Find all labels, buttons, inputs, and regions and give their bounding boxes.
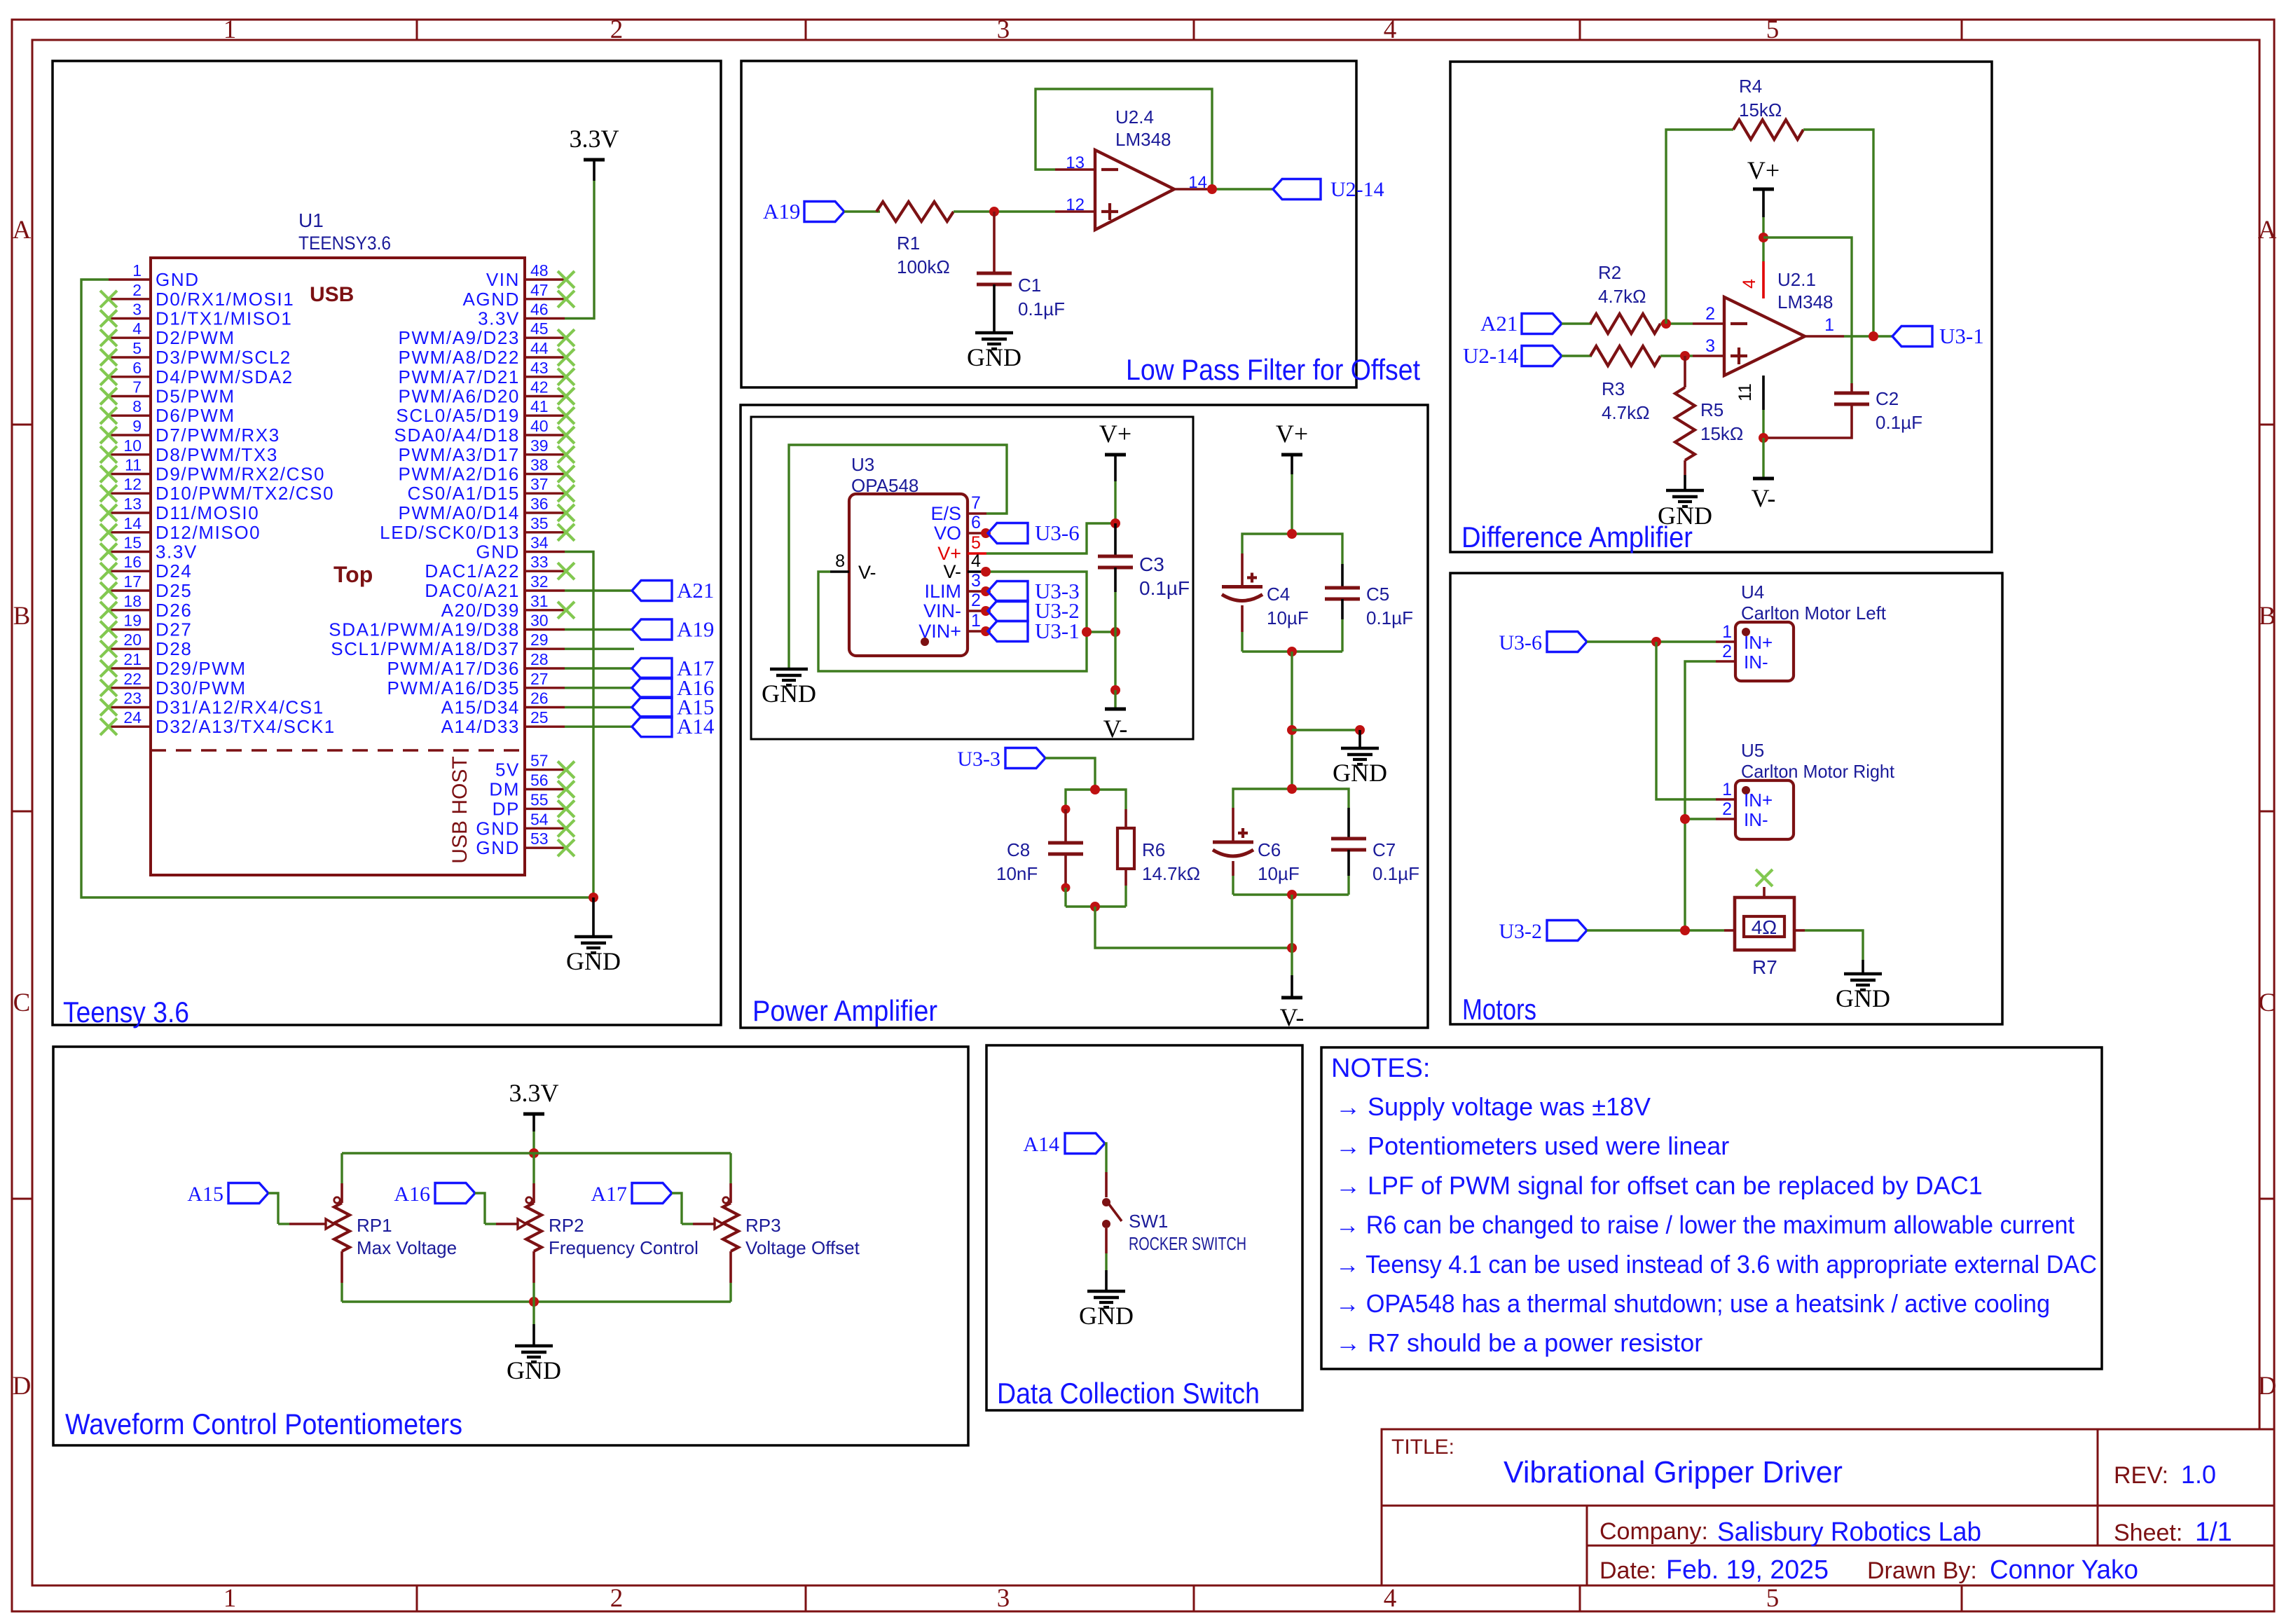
teensy pin 11 D9/PWM/RX2/CS0 (109, 473, 151, 475)
svg-text:RP2: RP2 (549, 1215, 584, 1236)
wire teensy pin1 GND loop (81, 280, 593, 897)
svg-text:LM348: LM348 (1777, 291, 1834, 312)
wire + net flag A15 (teensy pin 26) (565, 706, 632, 708)
svg-text:1: 1 (223, 1584, 237, 1613)
svg-text:D8/PWM/TX3: D8/PWM/TX3 (156, 444, 278, 465)
svg-text:GND: GND (1836, 984, 1890, 1012)
pin 12 (1055, 210, 1095, 212)
svg-text:DM: DM (489, 779, 520, 800)
svg-text:V+: V+ (1276, 420, 1308, 448)
wire teensy pin34 GND (565, 552, 593, 898)
svg-text:1: 1 (223, 15, 237, 44)
svg-text:41: 41 (530, 397, 549, 415)
teensy pin 16 D24 (109, 570, 151, 572)
svg-text:38: 38 (530, 456, 549, 474)
svg-text:19: 19 (123, 612, 142, 630)
svg-text:Carlton Motor Left: Carlton Motor Left (1741, 603, 1887, 624)
svg-text:→ R7 should be a power resist: → R7 should be a power resistor (1335, 1328, 1702, 1357)
svg-text:PWM/A3/D17: PWM/A3/D17 (399, 444, 521, 465)
wire U3-6 to U4 (1587, 640, 1716, 642)
teensy pin 28 PWM/A17/D36 (525, 667, 565, 669)
wire + net flag A14 (teensy pin 25) (565, 725, 632, 727)
wire A19 to R1 (844, 210, 880, 212)
svg-text:V-: V- (858, 562, 876, 583)
svg-text:25: 25 (530, 708, 549, 727)
svg-text:5: 5 (971, 533, 981, 553)
resistor R2 4.7k (1590, 314, 1660, 333)
svg-text:29: 29 (530, 631, 549, 649)
svg-text:3: 3 (997, 15, 1010, 44)
teensy pin 8 D6/PWM (109, 415, 151, 417)
svg-text:V+: V+ (1747, 156, 1780, 184)
svg-text:U2-14: U2-14 (1463, 343, 1519, 368)
teensy pin 7 D5/PWM (109, 395, 151, 397)
svg-text:5: 5 (1766, 15, 1780, 44)
NOTES box (1321, 1047, 2102, 1369)
svg-text:3: 3 (1705, 336, 1715, 356)
teensy pin 56 DM (525, 788, 565, 790)
wire C6/C7 bottom rail (1233, 893, 1349, 895)
svg-text:V-: V- (1752, 484, 1776, 512)
svg-text:11: 11 (125, 456, 142, 474)
svg-text:PWM/A9/D23: PWM/A9/D23 (399, 327, 521, 348)
svg-text:28: 28 (530, 650, 549, 668)
capacitor C6 10uF polarized (1232, 808, 1234, 841)
wire mid rail down (1291, 652, 1293, 789)
svg-text:A17: A17 (591, 1183, 627, 1206)
svg-text:U1: U1 (298, 209, 324, 231)
svg-text:GND: GND (476, 837, 520, 858)
svg-text:24: 24 (123, 708, 142, 727)
svg-text:→ Teensy 4.1 can be used inst: → Teensy 4.1 can be used instead of 3.6 … (1335, 1250, 2097, 1279)
svg-text:A20/D39: A20/D39 (441, 600, 520, 621)
svg-text:VIN: VIN (486, 269, 520, 290)
svg-text:GND: GND (1079, 1302, 1134, 1330)
svg-text:SDA1/PWM/A19/D38: SDA1/PWM/A19/D38 (329, 619, 520, 640)
ground power amp left (770, 668, 808, 671)
wire A21 to R2 (1562, 322, 1592, 324)
wire C4/C5 bottom rail (1242, 650, 1342, 652)
svg-text:→ Supply voltage was ±18V: → Supply voltage was ±18V (1335, 1092, 1651, 1121)
svg-text:U4: U4 (1741, 582, 1764, 603)
svg-text:D10/PWM/TX2/CS0: D10/PWM/TX2/CS0 (156, 483, 334, 504)
svg-text:Voltage Offset: Voltage Offset (745, 1237, 860, 1258)
U3 OPA548 body (849, 494, 968, 656)
svg-text:2: 2 (1722, 642, 1732, 661)
Waveform Control Potentiometers section box (53, 1047, 968, 1445)
svg-text:10µF: 10µF (1258, 863, 1300, 884)
wire U3-3 to C8/R6 (1045, 758, 1095, 790)
junction node R1/C1 (989, 207, 999, 216)
U3 pin 6 VO (968, 532, 986, 534)
svg-text:5: 5 (132, 339, 142, 357)
net flag U3-1 output (1892, 326, 1932, 347)
svg-text:14.7kΩ: 14.7kΩ (1142, 863, 1200, 884)
wire U3 pin5 V+ (986, 523, 1115, 553)
svg-text:Max Voltage: Max Voltage (357, 1237, 457, 1258)
svg-text:D29/PWM: D29/PWM (156, 658, 247, 679)
wire C8/R6 bottom rail (1066, 905, 1126, 907)
teensy pin 41 SCL0/A5/D19 (525, 415, 565, 417)
capacitor C1 0.1uF (993, 212, 996, 273)
U5 pin 2 IN- (1716, 818, 1735, 820)
svg-text:9: 9 (132, 417, 142, 435)
Low Pass Filter section box (741, 61, 1356, 387)
wire R2 to op-amp (1660, 322, 1693, 324)
ground switch (1105, 1270, 1108, 1291)
svg-text:R2: R2 (1598, 262, 1621, 283)
feedback loop R4 (1666, 130, 1733, 324)
svg-text:GND: GND (1658, 502, 1712, 530)
svg-text:1: 1 (132, 261, 142, 280)
svg-text:31: 31 (530, 592, 549, 610)
U3 pin 4 V- (968, 570, 986, 572)
OPA548 sub box (751, 417, 1193, 739)
potentiometer RP2 Frequency Control (532, 1153, 535, 1183)
teensy pin 35 LED/SCK0/D13 (525, 531, 565, 533)
pin 4 V+ (1762, 261, 1765, 298)
svg-text:100kΩ: 100kΩ (897, 256, 950, 277)
switch SW1 rocker (1105, 1172, 1108, 1197)
svg-text:GND: GND (476, 818, 520, 839)
wire A16 to wiper (475, 1193, 485, 1224)
svg-text:PWM/A6/D20: PWM/A6/D20 (399, 386, 521, 407)
resistor R6 14.7k box style (1124, 809, 1127, 828)
ground under R5 (1684, 475, 1686, 490)
net flag U3-2 (981, 606, 991, 616)
svg-text:A14/D33: A14/D33 (441, 716, 520, 737)
svg-text:Feb. 19, 2025: Feb. 19, 2025 (1666, 1555, 1829, 1585)
svg-text:Vibrational Gripper Driver: Vibrational Gripper Driver (1504, 1455, 1843, 1489)
junction teensy gnd (589, 893, 598, 902)
wire output to flag (1215, 188, 1273, 190)
no-connect X above R7 (1756, 869, 1773, 886)
svg-text:VIN-: VIN- (923, 600, 961, 621)
svg-text:2: 2 (1722, 799, 1732, 819)
teensy pin 48 VIN (525, 278, 565, 280)
svg-text:→ LPF of PWM signal for offse: → LPF of PWM signal for offset can be re… (1335, 1171, 1983, 1199)
svg-text:A15: A15 (187, 1183, 223, 1206)
wire A14 to switch (1105, 1143, 1106, 1172)
wire A17 to wiper (672, 1193, 682, 1224)
svg-text:47: 47 (530, 281, 549, 299)
svg-text:D3/PWM/SCL2: D3/PWM/SCL2 (156, 347, 291, 368)
svg-text:RP3: RP3 (745, 1215, 781, 1236)
junction U5 IN- (1680, 814, 1690, 824)
teensy pin 47 AGND (525, 298, 565, 300)
svg-text:6: 6 (132, 359, 142, 377)
junction output U2.1 (1869, 331, 1878, 341)
teensy pin 45 PWM/A9/D23 (525, 337, 565, 339)
teensy pin 39 PWM/A3/D17 (525, 453, 565, 455)
svg-text:45: 45 (530, 319, 549, 338)
wire U4 IN- loop (1685, 661, 1716, 930)
ground mid power amp (1355, 725, 1365, 735)
svg-text:GND: GND (156, 269, 200, 290)
teensy pin 17 D25 (109, 589, 151, 591)
teensy pin 4 D2/PWM (109, 337, 151, 339)
svg-text:A14: A14 (677, 714, 715, 738)
pin 1 output (1805, 335, 1844, 337)
wire teensy pin29 stub (565, 648, 634, 650)
svg-text:3.3V: 3.3V (478, 308, 520, 329)
junction C2/V- (1759, 433, 1768, 443)
teensy pin 21 D29/PWM (109, 667, 151, 669)
svg-text:1: 1 (1722, 780, 1732, 799)
svg-text:A16: A16 (394, 1183, 430, 1206)
capacitor C5 0.1uF (1341, 553, 1343, 564)
svg-text:0.1µF: 0.1µF (1139, 577, 1190, 599)
svg-text:IN+: IN+ (1744, 790, 1773, 811)
svg-text:39: 39 (530, 436, 549, 455)
wire U3 pin7 to GND loop (789, 445, 1007, 669)
Teensy 3.6 section box (53, 61, 721, 1025)
svg-text:ILIM: ILIM (924, 581, 961, 602)
svg-text:10: 10 (123, 436, 142, 455)
svg-text:D7/PWM/RX3: D7/PWM/RX3 (156, 425, 280, 446)
svg-text:C6: C6 (1258, 839, 1281, 860)
resistor R1 100k (876, 202, 954, 221)
wiper arrow RP2 (485, 1223, 496, 1225)
svg-text:35: 35 (530, 514, 549, 532)
teensy pin 24 D32/A13/TX4/SCK1 (109, 725, 151, 727)
teensy pin 42 PWM/A6/D20 (525, 395, 565, 397)
svg-text:U3-6: U3-6 (1499, 631, 1542, 654)
svg-text:15kΩ: 15kΩ (1700, 423, 1743, 444)
Data Collection Switch section box (986, 1045, 1302, 1410)
U3 pin 8 V- (830, 570, 849, 572)
svg-text:GND: GND (762, 680, 816, 708)
U3 pin 2 VIN- (968, 610, 986, 612)
teensy pin 53 GND (525, 846, 565, 848)
svg-text:Sheet:: Sheet: (2114, 1520, 2182, 1546)
svg-text:A19: A19 (763, 199, 800, 223)
svg-text:USB HOST: USB HOST (448, 756, 472, 863)
svg-text:14: 14 (123, 514, 142, 532)
svg-text:U3-3: U3-3 (957, 748, 1000, 771)
teensy pin 18 D26 (109, 609, 151, 611)
teensy pin 37 CS0/A1/D15 (525, 493, 565, 495)
teensy pin 6 D4/PWM/SDA2 (109, 376, 151, 378)
svg-text:B: B (2259, 602, 2276, 631)
junction 3.3V rail (529, 1148, 539, 1158)
junction R2/R4 (1661, 319, 1671, 329)
resistor R5 15k (1684, 356, 1686, 387)
junction V- bottom (1287, 943, 1297, 953)
wire + net flag A21 (teensy pin 32) (565, 589, 632, 591)
svg-text:2: 2 (1705, 304, 1715, 324)
teensy pin 31 A20/D39 (525, 609, 565, 611)
svg-text:D1/TX1/MISO1: D1/TX1/MISO1 (156, 308, 292, 329)
teensy pin 43 PWM/A7/D21 (525, 376, 565, 378)
svg-text:VO: VO (934, 523, 961, 544)
wire U3-2 to R7 (1587, 929, 1724, 931)
svg-text:D: D (13, 1372, 32, 1401)
capacitor C2 0.1uF (1850, 383, 1853, 393)
svg-text:D5/PWM: D5/PWM (156, 386, 235, 407)
wire bottom rail (342, 1300, 731, 1302)
svg-text:1/1: 1/1 (2195, 1518, 2232, 1547)
svg-text:A19: A19 (677, 617, 714, 642)
wire + net flag A19 (teensy pin 30) (565, 628, 632, 631)
wire + net flag A17 (teensy pin 28) (565, 667, 632, 669)
svg-text:A: A (13, 216, 32, 245)
wire U3 pin4 V- (986, 572, 1087, 632)
svg-text:D6/PWM: D6/PWM (156, 405, 235, 426)
wire R4 to output (1803, 130, 1873, 336)
svg-text:43: 43 (530, 359, 549, 377)
svg-text:0.1µF: 0.1µF (1372, 863, 1419, 884)
U3 pin 7 E/S (968, 512, 986, 514)
wire R7 to GND (1805, 930, 1863, 960)
junction V+ (1759, 233, 1768, 242)
capacitor C4 10uF polarized (1241, 553, 1244, 585)
svg-text:12: 12 (123, 475, 142, 493)
svg-text:GND: GND (507, 1356, 561, 1384)
svg-text:SCL0/A5/D19: SCL0/A5/D19 (396, 405, 520, 426)
resistor R7 4ohm power (1724, 929, 1735, 932)
svg-text:7: 7 (971, 493, 981, 513)
svg-text:2: 2 (610, 1584, 624, 1613)
svg-text:C1: C1 (1018, 275, 1041, 296)
net flag U3-6 (981, 528, 991, 538)
svg-text:R3: R3 (1602, 378, 1625, 399)
junction R7 (1680, 925, 1690, 935)
svg-text:C: C (13, 989, 31, 1017)
svg-text:55: 55 (530, 790, 549, 808)
teensy pin 46 3.3V (525, 317, 565, 319)
svg-text:R4: R4 (1739, 76, 1762, 97)
svg-text:B: B (13, 602, 31, 631)
net flag U2-14 (1273, 179, 1321, 200)
U3 pin 1 VIN+ (968, 630, 986, 632)
svg-text:3: 3 (132, 301, 142, 319)
Power Amplifier section box (741, 405, 1428, 1028)
ground motors (1862, 960, 1864, 974)
svg-text:A21: A21 (1480, 311, 1518, 336)
teensy pin 20 D28 (109, 648, 151, 650)
svg-text:37: 37 (530, 475, 549, 493)
junction V- net (1110, 685, 1120, 695)
teensy pin 40 SDA0/A4/D18 (525, 434, 565, 436)
power V- bottom (1291, 895, 1293, 975)
feedback wire U2.4 (1036, 89, 1212, 189)
junction gnd rail (529, 1297, 539, 1307)
svg-text:D27: D27 (156, 619, 193, 640)
capacitor C7 0.1uF (1347, 808, 1350, 839)
svg-text:D9/PWM/RX2/CS0: D9/PWM/RX2/CS0 (156, 464, 325, 485)
svg-text:15kΩ: 15kΩ (1739, 99, 1782, 121)
svg-text:36: 36 (530, 495, 549, 513)
svg-text:D12/MISO0: D12/MISO0 (156, 522, 261, 543)
svg-text:Date:: Date: (1599, 1557, 1656, 1584)
junction + wire to GND (1287, 725, 1297, 735)
svg-text:ROCKER SWITCH: ROCKER SWITCH (1129, 1233, 1246, 1254)
teensy pin 19 D27 (109, 628, 151, 631)
svg-text:20: 20 (123, 631, 142, 649)
U3 pin 3 ILIM (968, 590, 986, 592)
svg-text:8: 8 (132, 397, 142, 415)
svg-text:40: 40 (530, 417, 549, 435)
teensy pin 34 GND (525, 551, 565, 553)
wire C6/C7 top rail (1233, 789, 1349, 808)
ground pots (532, 1302, 535, 1324)
svg-text:A: A (2258, 216, 2277, 245)
svg-text:Carlton Motor Right: Carlton Motor Right (1741, 761, 1895, 782)
wire V+ to C2 (1763, 238, 1852, 383)
junction U3 pin4 (981, 567, 991, 577)
svg-text:13: 13 (123, 495, 142, 513)
svg-text:13: 13 (1066, 153, 1085, 172)
svg-text:C8: C8 (1007, 839, 1030, 860)
svg-text:PWM/A17/D36: PWM/A17/D36 (387, 658, 520, 679)
svg-text:V-: V- (1103, 715, 1128, 743)
svg-text:R1: R1 (897, 233, 920, 254)
junction output U2.4 (1207, 184, 1217, 194)
U5 pin 1 IN+ (1716, 798, 1735, 800)
svg-text:D11/MOSI0: D11/MOSI0 (156, 502, 259, 523)
svg-text:PWM/A2/D16: PWM/A2/D16 (399, 464, 521, 485)
svg-text:V-: V- (1280, 1003, 1305, 1031)
svg-text:U3-1: U3-1 (1035, 619, 1080, 643)
U4 pin 1 IN+ (1716, 640, 1735, 642)
svg-text:Low Pass Filter for Offset: Low Pass Filter for Offset (1126, 353, 1420, 386)
svg-text:1: 1 (971, 611, 981, 631)
svg-text:33: 33 (530, 553, 549, 571)
svg-text:REV:: REV: (2114, 1462, 2168, 1489)
svg-text:E/S: E/S (930, 503, 961, 524)
svg-text:10nF: 10nF (996, 863, 1038, 884)
svg-text:CS0/A1/D15: CS0/A1/D15 (407, 483, 520, 504)
svg-text:D2/PWM: D2/PWM (156, 327, 235, 348)
potentiometer RP3 Voltage Offset (729, 1153, 731, 1183)
svg-text:3.3V: 3.3V (570, 125, 619, 153)
svg-text:4: 4 (971, 551, 981, 571)
power V- below C3 (1114, 690, 1116, 709)
teensy pin 23 D31/A12/RX4/CS1 (109, 706, 151, 708)
svg-text:17: 17 (123, 572, 142, 591)
svg-text:27: 27 (530, 670, 549, 688)
svg-text:Frequency Control: Frequency Control (549, 1237, 699, 1258)
wire + net flag A16 (teensy pin 27) (565, 687, 632, 689)
svg-text:Data Collection Switch: Data Collection Switch (997, 1377, 1260, 1410)
svg-text:22: 22 (123, 670, 142, 688)
svg-text:C3: C3 (1139, 553, 1164, 575)
svg-text:GND: GND (1333, 759, 1387, 787)
title block (1382, 1429, 2274, 1585)
svg-text:Connor Yako: Connor Yako (1990, 1555, 2138, 1585)
svg-text:3.3V: 3.3V (509, 1079, 559, 1107)
svg-text:2: 2 (610, 15, 624, 44)
svg-text:LM348: LM348 (1115, 129, 1171, 150)
svg-text:54: 54 (530, 810, 549, 828)
svg-text:AGND: AGND (462, 289, 520, 310)
net flag U3-1 (981, 626, 991, 636)
svg-text:A21: A21 (677, 578, 714, 603)
teensy pin 54 GND (525, 827, 565, 830)
svg-text:0.1µF: 0.1µF (1876, 412, 1922, 433)
svg-text:DAC1/A22: DAC1/A22 (425, 560, 520, 582)
svg-text:4.7kΩ: 4.7kΩ (1602, 402, 1650, 423)
teensy pin 12 D10/PWM/TX2/CS0 (109, 493, 151, 495)
U4 pin 2 IN- (1716, 660, 1735, 662)
svg-text:U2.4: U2.4 (1115, 106, 1154, 128)
capacitor C8 10nF (1061, 805, 1071, 814)
Difference Amplifier section box (1450, 62, 1992, 552)
svg-text:GND: GND (967, 343, 1021, 371)
teensy pin 22 D30/PWM (109, 687, 151, 689)
svg-text:D31/A12/RX4/CS1: D31/A12/RX4/CS1 (156, 697, 324, 718)
